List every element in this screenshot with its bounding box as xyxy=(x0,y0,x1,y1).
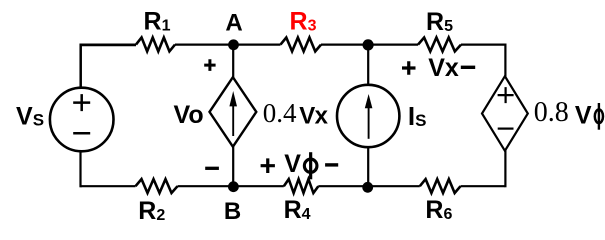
polarity plus of Vphi xyxy=(261,158,275,173)
svg-text:0.4: 0.4 xyxy=(263,98,297,128)
node A xyxy=(228,39,239,50)
svg-text:Vo: Vo xyxy=(174,101,204,129)
voltage source Vs xyxy=(50,88,114,152)
wire Is to bottom mid node xyxy=(367,147,369,188)
svg-text:Vx: Vx xyxy=(299,102,328,129)
wire bottom rail segments xyxy=(81,185,505,187)
resistor R5 xyxy=(418,38,461,52)
dependent current source 0.4Vx (diamond) xyxy=(210,77,257,147)
polarity minus of Vphi xyxy=(325,163,338,166)
svg-text:Vx: Vx xyxy=(428,54,459,82)
svg-text:V: V xyxy=(575,101,592,129)
svg-text:B: B xyxy=(224,198,241,225)
wire left vertical lower xyxy=(79,151,81,188)
node B xyxy=(228,181,239,192)
node top-mid xyxy=(363,39,374,50)
wire left vertical upper xyxy=(79,44,82,89)
resistor R2 xyxy=(136,179,178,193)
svg-text:V: V xyxy=(284,150,301,178)
dependent voltage source 0.8Vphi (diamond) xyxy=(482,76,528,151)
resistor R4 xyxy=(284,179,318,193)
node bottom-mid xyxy=(362,182,373,193)
wire right vertical lower xyxy=(504,150,506,187)
wire Vo diamond to node B xyxy=(232,146,234,186)
current source Is xyxy=(337,85,399,147)
resistor R3 xyxy=(281,38,322,52)
polarity minus below Vo xyxy=(205,167,219,170)
svg-text:A: A xyxy=(225,10,242,37)
resistor R1 xyxy=(136,38,175,52)
wire top rail segments xyxy=(81,44,137,47)
wire node A to Vo diamond xyxy=(232,45,234,78)
polarity minus of Vx xyxy=(461,66,475,69)
wire top mid node to Is xyxy=(367,45,369,86)
polarity plus of Vx xyxy=(402,61,416,75)
polarity plus above Vo xyxy=(204,59,215,71)
wire right vertical upper xyxy=(504,44,506,78)
svg-text:0.8: 0.8 xyxy=(534,97,569,128)
resistor R6 xyxy=(420,179,461,193)
